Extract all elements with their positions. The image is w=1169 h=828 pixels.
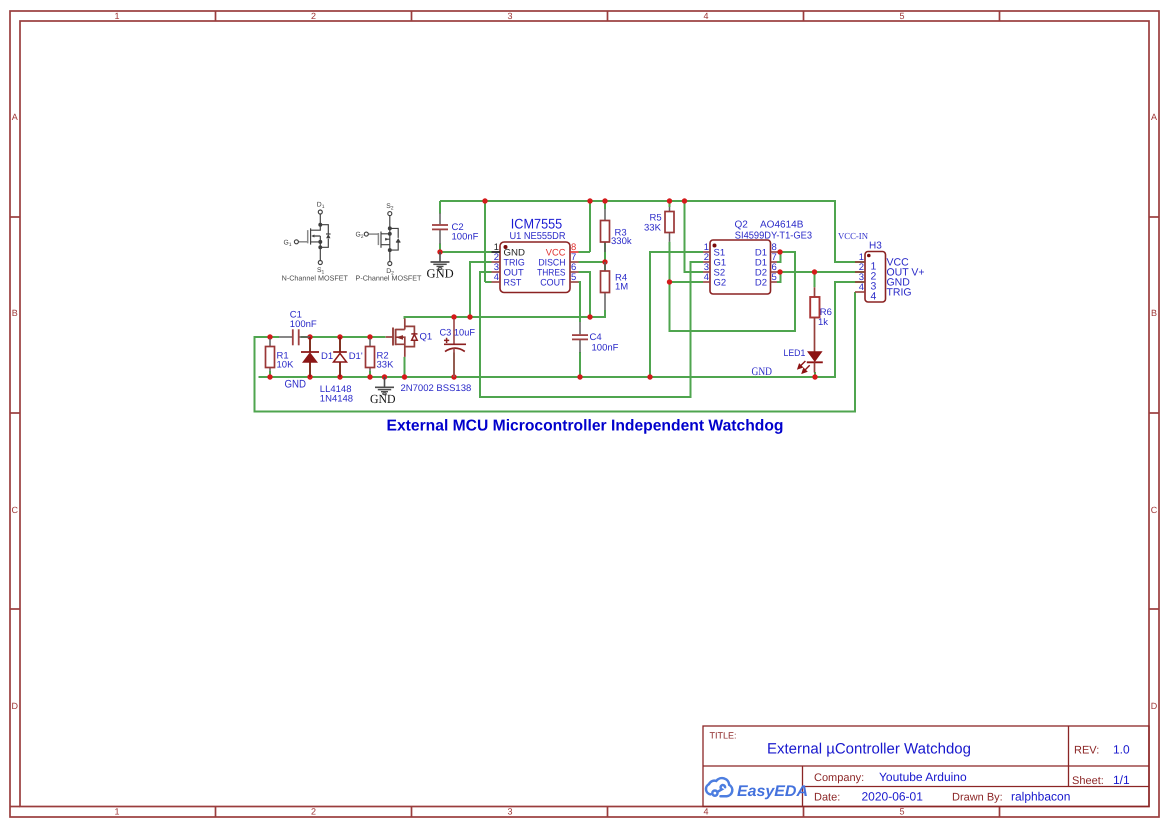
svg-text:3: 3: [507, 807, 512, 817]
wire C2 top: [439, 201, 441, 214]
resistor R6: [810, 287, 832, 328]
svg-text:ICM7555: ICM7555: [511, 216, 563, 232]
svg-text:ralphbacon: ralphbacon: [1011, 790, 1070, 804]
svg-text:GND: GND: [752, 366, 773, 378]
junction dot R5/G2: [667, 279, 672, 284]
svg-text:D1': D1': [349, 351, 363, 362]
svg-text:2N7002 BSS138: 2N7002 BSS138: [401, 383, 472, 394]
svg-text:D1: D1: [321, 351, 333, 362]
junction dots node y317: [451, 314, 456, 319]
svg-text:330k: 330k: [611, 236, 632, 247]
svg-text:Q1: Q1: [420, 332, 433, 343]
svg-text:Date:: Date:: [814, 792, 840, 804]
resistor R1: [266, 339, 295, 372]
svg-text:1M: 1M: [615, 282, 628, 293]
svg-text:GND: GND: [427, 267, 454, 281]
junction dots input node y337: [267, 334, 272, 339]
wire Q2-D2 to H3 pin2 and R6: [777, 272, 865, 287]
wire R5 bottom / G2 / Q2-D1 net: [670, 242, 796, 331]
junction dot C2/GND/U1pin1: [437, 249, 442, 254]
svg-text:B: B: [1151, 308, 1157, 318]
TITLE BLOCK: [703, 726, 1149, 807]
svg-text:VCC-IN: VCC-IN: [838, 231, 868, 241]
svg-text:33K: 33K: [644, 223, 662, 234]
svg-text:10K: 10K: [277, 360, 295, 371]
svg-text:1/1: 1/1: [1113, 773, 1130, 787]
resistor R5: [644, 207, 674, 242]
svg-text:100nF: 100nF: [592, 343, 619, 354]
label diodes part numbers: [320, 384, 353, 405]
svg-text:H3: H3: [869, 241, 882, 252]
svg-text:Sheet:: Sheet:: [1072, 775, 1104, 787]
capacitor C2: [432, 213, 479, 244]
svg-text:1: 1: [114, 11, 119, 21]
junction dots GND rail: [267, 374, 272, 379]
svg-text:G1: G1: [284, 239, 292, 248]
junction dots Q2 D1 D2: [777, 249, 782, 254]
svg-text:TITLE:: TITLE:: [710, 731, 737, 741]
wire RST stub: [485, 281, 492, 283]
svg-text:33K: 33K: [377, 360, 395, 371]
svg-text:A: A: [12, 112, 18, 122]
wire R3 R4 verticals: [604, 242, 606, 271]
svg-text:4: 4: [704, 272, 709, 283]
svg-text:4: 4: [494, 272, 499, 283]
svg-text:COUT: COUT: [540, 278, 565, 289]
P-Channel MOSFET reference image: [364, 212, 400, 266]
wire OUT to G1 net: [480, 262, 703, 397]
svg-text:N-Channel MOSFET: N-Channel MOSFET: [282, 273, 349, 282]
wire VCC rail net: [440, 201, 865, 282]
svg-text:C: C: [12, 505, 19, 515]
svg-text:4: 4: [703, 11, 708, 21]
junction dot DISCH R3 R4: [602, 259, 607, 264]
svg-text:D1: D1: [317, 202, 325, 211]
svg-text:2: 2: [311, 11, 316, 21]
svg-text:GND: GND: [370, 392, 396, 406]
svg-text:5: 5: [899, 807, 904, 817]
header H3: [855, 241, 925, 303]
svg-text:3: 3: [507, 11, 512, 21]
svg-text:Youtube Arduino: Youtube Arduino: [879, 770, 967, 784]
resistor R3: [601, 209, 632, 252]
svg-text:External MCU Microcontroller I: External MCU Microcontroller Independent…: [387, 418, 784, 435]
svg-text:1: 1: [114, 807, 119, 817]
svg-text:D: D: [12, 701, 19, 711]
wire Q1 drain node y317: [405, 310, 606, 319]
svg-text:P-Channel MOSFET: P-Channel MOSFET: [356, 273, 423, 282]
IC U1 ICM7555: [492, 216, 579, 293]
svg-text:1k: 1k: [818, 317, 828, 328]
wire THRES net: [579, 272, 591, 317]
svg-text:Q2: Q2: [735, 220, 749, 231]
svg-text:LED1: LED1: [784, 348, 806, 359]
svg-text:100nF: 100nF: [452, 232, 479, 243]
wire DISCH to R3 R4: [579, 261, 606, 263]
capacitor C4: [572, 322, 619, 354]
svg-text:D2: D2: [755, 277, 767, 288]
svg-text:1.0: 1.0: [1113, 743, 1130, 757]
svg-text:4: 4: [703, 807, 708, 817]
svg-text:Company:: Company:: [814, 772, 864, 784]
svg-text:External µController Watchdog: External µController Watchdog: [767, 741, 971, 758]
wire TRIG input rail: [255, 292, 856, 412]
svg-text:SI4599DY-T1-GE3: SI4599DY-T1-GE3: [735, 231, 813, 242]
svg-text:RST: RST: [504, 278, 522, 289]
wire VCC pin8: [579, 251, 591, 253]
capacitor C1: [279, 310, 317, 346]
svg-text:5: 5: [772, 272, 777, 283]
ground symbol under C2: [431, 252, 450, 269]
svg-text:1N4148: 1N4148: [320, 394, 353, 405]
svg-text:5: 5: [571, 272, 576, 283]
diode D1: [301, 337, 333, 377]
ground symbol near R2: [375, 377, 394, 395]
svg-text:C3 10uF: C3 10uF: [440, 328, 476, 339]
svg-text:2020-06-01: 2020-06-01: [862, 790, 924, 804]
svg-text:TRIG: TRIG: [887, 287, 912, 299]
N-Channel MOSFET reference image: [294, 210, 330, 265]
wire U1 pin1 GND net: [440, 244, 492, 253]
svg-text:S2: S2: [386, 203, 394, 212]
EasyEDA logo: [706, 778, 808, 800]
wire TRIG net: [470, 262, 492, 317]
svg-text:GND: GND: [285, 379, 307, 391]
wire GND rail: [259, 282, 866, 380]
wire C1 R1 node: [255, 336, 280, 338]
junction dot R6 top: [812, 269, 817, 274]
transistor Q1 2N7002: [386, 319, 418, 357]
IC Q2 AO4614B dual MOSFET: [703, 220, 812, 295]
svg-text:D: D: [1151, 701, 1158, 711]
svg-text:A: A: [1151, 112, 1157, 122]
svg-text:4: 4: [859, 282, 864, 293]
svg-text:EasyEDA: EasyEDA: [737, 783, 808, 800]
junction dots VCC rail: [482, 198, 487, 203]
svg-text:B: B: [12, 308, 18, 318]
resistor R2: [366, 339, 395, 372]
svg-text:AO4614B: AO4614B: [760, 220, 804, 231]
svg-text:REV:: REV:: [1074, 745, 1099, 757]
svg-text:4: 4: [871, 291, 877, 303]
svg-text:C4: C4: [590, 332, 602, 343]
svg-text:Drawn By:: Drawn By:: [952, 792, 1003, 804]
wire COUT to C4: [579, 282, 581, 377]
svg-text:C: C: [1151, 505, 1158, 515]
LED1: [784, 318, 823, 373]
svg-text:U1 NE555DR: U1 NE555DR: [510, 231, 566, 242]
svg-text:2: 2: [311, 807, 316, 817]
wire S1 to GND: [650, 252, 703, 377]
diode D1': [333, 337, 363, 377]
svg-text:5: 5: [899, 11, 904, 21]
svg-text:100nF: 100nF: [290, 319, 317, 330]
resistor R4: [601, 262, 629, 310]
svg-text:G2: G2: [714, 277, 727, 288]
svg-text:G2: G2: [356, 232, 364, 241]
capacitor C3 polarized: [440, 319, 476, 377]
